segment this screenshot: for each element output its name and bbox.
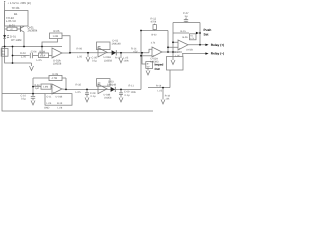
node pull-up junction: [167, 51, 169, 53]
wire top supply entry: [4, 3, 6, 47]
wire relay minus row: [182, 53, 206, 55]
svg-text:1μF: 1μF: [35, 87, 40, 90]
svg-text:-: -: [153, 49, 154, 52]
svg-text:R-13: R-13: [115, 57, 121, 60]
relay coil box: [167, 54, 184, 70]
svg-text:R-03: R-03: [20, 52, 26, 55]
op-amp U-03B: [98, 84, 107, 93]
op-amp U-01A: [52, 48, 62, 58]
node rail-feedback junction: [41, 46, 43, 48]
wire comp2 input stubs: [168, 42, 178, 47]
svg-text:L.05: L.05: [175, 54, 180, 57]
ground G1: [30, 63, 34, 71]
node set arrow: [196, 32, 199, 34]
capacitor C-07: [173, 18, 200, 23]
svg-text:R-1: R-1: [190, 34, 193, 37]
regulator U-05 box: [5, 11, 28, 27]
op-amp U-02A: [98, 48, 107, 57]
svg-text:R-08: R-08: [35, 84, 41, 87]
svg-text:R-15: R-15: [181, 30, 187, 33]
wire stage2 output: [62, 88, 141, 90]
svg-text:R-09: R-09: [53, 73, 59, 76]
svg-text:R-06: R-06: [77, 48, 83, 51]
svg-text:-: -: [53, 50, 54, 53]
node coupling junction: [172, 51, 174, 53]
diode D-02: [112, 50, 117, 55]
wire riser to comparator ground leg: [142, 53, 146, 64]
resistor R-04: [39, 53, 53, 58]
svg-text:OT 1/4M: OT 1/4M: [11, 39, 22, 42]
resistor R-15 box: [190, 34, 197, 40]
wire hysteresis loop: [141, 31, 168, 53]
wire x200 riser: [199, 23, 201, 45]
svg-text:L.08: L.08: [58, 107, 63, 110]
transistor Q-01: [21, 26, 25, 47]
wire comparator output: [162, 51, 182, 53]
wire stage2 feedback drops: [33, 78, 66, 94]
node R-18 junction: [162, 87, 164, 89]
svg-text:L.05: L.05: [21, 56, 27, 59]
svg-text:100k: 100k: [124, 60, 130, 63]
wire lower left branch: [5, 47, 32, 64]
svg-text:4.7k: 4.7k: [190, 37, 194, 40]
svg-text:GND: GND: [44, 107, 50, 110]
svg-text:Push: Push: [204, 28, 212, 32]
svg-text:B-01: B-01: [9, 24, 15, 28]
capacitor C-08 to ground: [85, 89, 89, 102]
LED D-01: [3, 34, 9, 47]
node lower-branch junction: [12, 62, 14, 64]
capacitor C-01 input coupling: [13, 53, 39, 58]
svg-text:-: -: [179, 42, 180, 45]
wire mid set line: [173, 32, 189, 34]
svg-text:L.05: L.05: [76, 91, 82, 94]
wire stage1 output: [62, 52, 149, 54]
resistor R-13 to ground: [119, 53, 123, 63]
svg-text:+ 1.5V to +30V (in): + 1.5V to +30V (in): [8, 1, 32, 5]
node relay-plus junction: [199, 44, 201, 46]
notes box: [45, 94, 72, 106]
node output arrow 2: [205, 52, 208, 54]
wire ground return frame: [2, 47, 153, 112]
wire comparator plus stub: [141, 55, 152, 57]
wire input net drop: [169, 70, 171, 88]
svg-text:0.1μ: 0.1μ: [91, 95, 96, 98]
resistor R-09 feedback stage2: [33, 75, 66, 80]
svg-text:Set: Set: [204, 33, 210, 37]
node C-08 junction: [86, 89, 88, 91]
svg-text:0.1μ: 0.1μ: [21, 98, 26, 101]
resistor R-08 input stage2: [33, 84, 52, 89]
svg-text:1.0M: 1.0M: [53, 35, 59, 38]
node C-09 junction: [120, 89, 122, 91]
wire into comparator top input: [149, 49, 152, 53]
svg-text:4.7M: 4.7M: [52, 77, 58, 80]
svg-text:B1: B1: [14, 12, 18, 16]
wire divider drop: [12, 47, 14, 64]
wire bottom common: [2, 93, 45, 95]
resistor R-05 feedback: [50, 33, 63, 39]
node bottom-common junction: [32, 93, 34, 95]
svg-text:B-02: B-02: [152, 33, 158, 36]
svg-text:L.05 Tol: L.05 Tol: [6, 19, 16, 23]
svg-text:C-11: C-11: [47, 96, 53, 99]
svg-text:C-04: C-04: [31, 50, 37, 53]
node stage2 feedback junction: [65, 89, 67, 91]
svg-text:LM358: LM358: [53, 63, 62, 66]
svg-text:U-02B: U-02B: [186, 49, 193, 52]
wire rail positive: [2, 46, 62, 48]
resistor R-18 to ground: [161, 88, 165, 104]
svg-text:1μ: 1μ: [185, 15, 188, 18]
svg-text:R-11: R-11: [129, 85, 135, 88]
capacitor C-10 to ground: [31, 94, 35, 105]
node output arrow 1: [205, 44, 208, 46]
connector J-02 input: [146, 62, 153, 69]
capacitor C-09 to ground: [119, 89, 123, 102]
svg-text:Relay (−): Relay (−): [211, 52, 224, 56]
node rail-divider junction: [12, 46, 14, 48]
svg-text:1N4148: 1N4148: [107, 84, 117, 87]
wire lower right net: [148, 87, 170, 89]
svg-text:L.05: L.05: [77, 56, 83, 59]
svg-text:Out: Out: [155, 67, 160, 71]
svg-text:-: -: [53, 86, 54, 89]
svg-text:R-10: R-10: [76, 84, 82, 87]
connector J-01: [1, 49, 8, 57]
svg-text:B-06: B-06: [183, 36, 189, 39]
wire comp2 output: [188, 44, 206, 46]
wire long riser from bottom stage: [140, 31, 142, 90]
wire feedback right lead: [62, 36, 70, 53]
node comp2 plus junction: [167, 46, 169, 48]
node set-line junction: [199, 32, 201, 34]
svg-text:L.05: L.05: [158, 90, 163, 93]
svg-text:Relay (+): Relay (+): [211, 43, 224, 47]
node plus-input junction: [140, 55, 142, 57]
node C-05 junction: [87, 52, 89, 54]
svg-text:B-04: B-04: [40, 50, 46, 53]
comparator U-03: [178, 40, 188, 50]
node hysteresis junction: [140, 30, 142, 32]
ground G5: [146, 68, 150, 75]
svg-text:U-01B: U-01B: [56, 96, 63, 99]
svg-text:0V: 0V: [147, 65, 150, 68]
diode D-03: [111, 87, 116, 92]
node ground-leg junction: [141, 52, 143, 54]
svg-text:0.1μ: 0.1μ: [125, 94, 130, 97]
svg-text:R-16: R-16: [156, 85, 162, 88]
svg-text:1N4148: 1N4148: [112, 43, 122, 46]
svg-text:100k: 100k: [131, 91, 137, 94]
svg-text:0.1μ: 0.1μ: [92, 60, 97, 63]
svg-text:47μF: 47μF: [40, 54, 46, 57]
svg-text:10k: 10k: [166, 98, 171, 101]
svg-text:470k: 470k: [151, 21, 157, 24]
comparator U-02B: [152, 47, 162, 57]
node stage1 output junction: [69, 52, 71, 54]
trimmer R-12: [153, 24, 156, 31]
svg-text:LM358: LM358: [104, 59, 112, 62]
svg-text:R-05: R-05: [54, 30, 60, 33]
svg-text:LM358: LM358: [104, 97, 112, 100]
svg-text:L.05: L.05: [47, 102, 52, 105]
svg-text:R-19: R-19: [57, 102, 63, 105]
resistor R-06 label wire (labels only): [0, 0, 1, 1]
op-amp U-01B: [52, 84, 62, 94]
gain box U-03B loop: [97, 79, 111, 87]
svg-text:1.0M: 1.0M: [43, 86, 48, 89]
resistor R-01: [5, 27, 21, 30]
node input-wire junction: [12, 55, 14, 57]
node supply arrow tick: [4, 1, 6, 3]
svg-text:Imped: Imped: [155, 63, 164, 67]
svg-text:+5V: +5V: [133, 50, 138, 53]
gain box U-02A loop: [97, 42, 111, 50]
node rail-LED junction: [4, 46, 6, 48]
node comp2 minus junction: [172, 41, 174, 43]
svg-text:L.05: L.05: [37, 59, 43, 62]
svg-text:4.7k: 4.7k: [151, 41, 156, 44]
node R-13 junction: [120, 52, 122, 54]
node rail-emitter junction: [23, 46, 25, 48]
svg-text:2N3904: 2N3904: [28, 29, 38, 33]
wire coupling loop riser: [171, 23, 175, 65]
node stage2 input junction: [32, 86, 34, 88]
svg-text:TP-01: TP-01: [12, 6, 21, 10]
capacitor C-05 to ground: [86, 53, 90, 62]
wire feedback left lead: [42, 39, 58, 56]
